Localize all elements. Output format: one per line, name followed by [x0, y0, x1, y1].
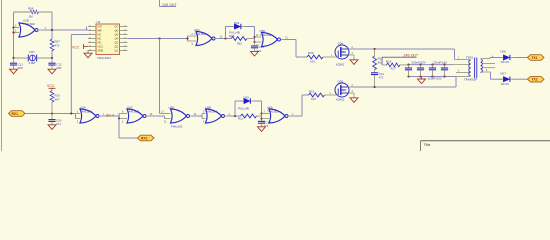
wire box2 rails	[235, 101, 262, 121]
svg-text:220uF/10V: 220uF/10V	[433, 61, 447, 65]
title block	[421, 141, 550, 151]
node junction box2 right top	[260, 112, 262, 114]
svg-text:NC: NC	[98, 33, 102, 37]
svg-text:74ALS02: 74ALS02	[206, 110, 218, 114]
capacitor C20 220uF/10V	[441, 64, 448, 78]
resistor R11 PULL4B	[238, 107, 262, 121]
capacitor C12 20P	[48, 58, 62, 70]
port RX input	[9, 111, 26, 117]
svg-text:Q3: Q3	[115, 41, 119, 45]
wire U5B out to box2	[227, 115, 241, 117]
svg-text:74ALS02: 74ALS02	[127, 110, 139, 114]
node junction snubber top	[374, 48, 376, 50]
wire long vertical branch to bottom row	[70, 35, 72, 115]
node junction box right top	[253, 36, 255, 38]
wire U3A out to U3C	[102, 115, 121, 117]
svg-text:74ALS02: 74ALS02	[171, 125, 183, 129]
wire Q04 drain rail	[351, 48, 455, 50]
svg-text:Q5: Q5	[115, 33, 119, 37]
resistor R12	[309, 90, 335, 102]
svg-text:Q1: Q1	[115, 49, 119, 53]
node junction osc input bottom	[12, 31, 14, 33]
ground for C12	[48, 69, 56, 74]
IC U4 74HC4024 body	[96, 20, 120, 60]
capacitor C10 271 input	[48, 114, 61, 127]
wire osc output to IC pin1	[42, 29, 88, 31]
wire input line	[25, 113, 76, 115]
svg-text:74HC4024: 74HC4024	[97, 56, 111, 60]
svg-text:20P: 20P	[18, 66, 23, 70]
wire Q output to top chain	[128, 38, 188, 40]
node junction osc output	[51, 29, 53, 31]
transistor Q05 mosfet	[330, 79, 355, 101]
svg-text:Title: Title	[424, 143, 431, 147]
node junction osc bottom left	[12, 57, 14, 59]
wire U3C out to U3D	[149, 116, 165, 119]
svg-text:ICP: ICP	[98, 25, 103, 29]
wire U5A out to gate resistor R12	[291, 95, 309, 116]
svg-text:VCC: VCC	[72, 45, 80, 49]
port TX1	[528, 55, 545, 61]
capacitor C11 20P	[10, 58, 23, 70]
wire U5C out to box	[218, 38, 231, 40]
op-amp U5B nor gate	[202, 106, 231, 124]
svg-text:VR-60: VR-60	[501, 82, 510, 86]
crystal CRY1 4.0M	[28, 50, 36, 65]
svg-text:R12: R12	[309, 90, 315, 94]
transformer TR01 TRANS3P	[453, 56, 496, 82]
diode D07 VR-60	[499, 72, 514, 86]
svg-text:220uF/10V: 220uF/10V	[412, 61, 426, 65]
svg-text:4K7: 4K7	[55, 97, 61, 101]
op-amp U5C nor gate	[188, 28, 223, 46]
wire jog pin1 to pin2	[86, 27, 88, 31]
svg-text:R11: R11	[238, 117, 243, 121]
svg-text:R08: R08	[229, 34, 235, 38]
svg-text:Q4: Q4	[115, 37, 119, 41]
ground for C15	[258, 127, 266, 132]
resistor R09	[307, 51, 335, 63]
wire osc bottom rail	[14, 57, 53, 59]
node junction U5C input	[186, 37, 188, 39]
svg-text:Q7: Q7	[115, 25, 119, 29]
ground for U4	[84, 51, 92, 58]
capacitor C18 220uF/10V	[417, 64, 424, 78]
svg-text:R09: R09	[308, 51, 314, 55]
power VCC for R10	[47, 84, 56, 89]
port RX2	[138, 135, 155, 141]
svg-text:D05: D05	[244, 95, 250, 99]
node junction pullup	[51, 112, 53, 114]
svg-text:VCC: VCC	[47, 84, 55, 88]
op-amp U5A nor gate	[262, 106, 295, 124]
sheet border	[1, 0, 3, 151]
ground for cap bank	[418, 77, 426, 84]
wire U3D out to U5B	[192, 115, 202, 117]
svg-text:74ALS02: 74ALS02	[267, 110, 279, 114]
node junction osc bottom right	[51, 57, 53, 59]
capacitor C17 220uF/10V	[405, 64, 412, 78]
node junction box left	[224, 37, 226, 39]
wire secondary top to D06	[490, 58, 502, 59]
node junction osc input top	[12, 26, 14, 28]
resistor R16	[382, 60, 409, 71]
svg-text:24S OUT: 24S OUT	[162, 3, 177, 7]
svg-text:TX2: TX2	[532, 78, 538, 82]
wire drain rail to transformer pin	[454, 49, 456, 60]
net label 24S OUT stub wire	[382, 57, 417, 65]
wire osc loop left vertical	[13, 12, 15, 58]
svg-text:U4: U4	[97, 20, 101, 24]
svg-text:74ALS02: 74ALS02	[260, 33, 272, 37]
capacitor C13 271	[251, 42, 264, 53]
wire pin2 row to branch corner	[71, 34, 88, 36]
wire D07 to port TX2	[514, 78, 528, 80]
op-amp U3C nor gate	[119, 106, 153, 124]
svg-text:NC: NC	[98, 37, 102, 41]
wire osc loop top rail	[14, 11, 53, 13]
svg-text:Q05: Q05	[338, 79, 344, 83]
svg-text:D07: D07	[501, 72, 507, 76]
svg-text:220uF/10V: 220uF/10V	[428, 76, 442, 80]
node junction snubber bottom	[374, 86, 376, 88]
node junction box2 right bottom	[260, 117, 262, 119]
capacitor C15 271	[258, 120, 271, 128]
svg-text:472: 472	[55, 44, 60, 48]
svg-text:K2962: K2962	[336, 98, 345, 102]
transistor Q04 mosfet	[331, 41, 354, 66]
svg-text:100: 100	[311, 97, 316, 101]
op-amp U3A nor gate	[76, 106, 106, 124]
svg-text:20P: 20P	[56, 66, 61, 70]
op-amp U5D nor gate	[255, 29, 289, 47]
resistor R08 PULL4B	[228, 31, 255, 46]
node junction U3C input branch	[118, 117, 120, 119]
wire branch to RX2 port	[119, 119, 138, 139]
capacitor C19 220uF/10V	[429, 64, 436, 78]
node junction box2 left	[234, 115, 236, 117]
wire secondary bottom to D07	[491, 72, 503, 79]
ground for C11	[10, 69, 18, 74]
svg-text:Q2: Q2	[115, 45, 119, 49]
diode D06 VR-60	[499, 50, 514, 65]
wire osc loop right vertical	[51, 12, 53, 58]
wire D06 to port TX1	[514, 57, 528, 59]
svg-text:271: 271	[56, 122, 61, 126]
svg-text:74ALS02: 74ALS02	[194, 32, 206, 36]
resistor R13 snubber	[373, 49, 384, 70]
op-amp U2B nor gate oscillator	[14, 19, 47, 37]
node junction branch from top	[70, 112, 72, 114]
wire cap bank top rail	[409, 64, 453, 66]
resistor R07 472 series	[50, 39, 60, 51]
svg-text:MR: MR	[98, 29, 102, 33]
svg-text:NC: NC	[98, 41, 102, 45]
svg-text:1M: 1M	[29, 14, 34, 18]
svg-text:RX1: RX1	[12, 112, 19, 116]
node junction top chain branch	[158, 37, 160, 39]
ground for C10	[48, 125, 56, 130]
svg-text:562: 562	[237, 42, 242, 46]
svg-text:74ALS02: 74ALS02	[80, 110, 92, 114]
svg-text:VR-60: VR-60	[501, 60, 510, 64]
svg-text:R16: R16	[386, 60, 392, 64]
svg-text:Q04: Q04	[338, 41, 344, 45]
capacitor C14 snubber	[371, 69, 384, 87]
net label 24S OUT top left	[160, 0, 178, 7]
diode D04	[230, 21, 245, 29]
svg-text:Q6: Q6	[115, 29, 119, 33]
svg-text:74ALS02: 74ALS02	[23, 22, 35, 26]
op-amp U3D nor gate	[160, 106, 197, 129]
svg-text:GND: GND	[98, 49, 104, 53]
svg-text:U3D: U3D	[169, 106, 175, 110]
node junction box right bottom	[253, 41, 255, 43]
IC U4 left pins	[88, 25, 96, 50]
power VCC for U4	[72, 44, 88, 49]
wire Q05 drain rail	[351, 77, 457, 88]
wire vertical branch to U3D pin12	[159, 39, 161, 114]
svg-text:CRY: CRY	[29, 50, 35, 54]
diode D05	[240, 95, 255, 103]
wire box top rails	[226, 27, 255, 44]
ground for Q05 source	[350, 97, 358, 102]
port TX2	[528, 76, 545, 82]
svg-text:SD-4: SD-4	[106, 113, 114, 117]
ground for Q04 source	[350, 59, 358, 64]
svg-text:D06: D06	[501, 50, 507, 54]
resistor R06 1M feedback	[28, 7, 38, 19]
wire cap bank bottom rail	[409, 76, 457, 78]
svg-text:TR01: TR01	[466, 56, 473, 60]
resistor R10 4K7 pullup	[50, 89, 60, 114]
svg-text:TX1: TX1	[532, 56, 538, 60]
IC U4 right pins	[120, 25, 128, 50]
wire U5D out to gate resistor	[284, 40, 308, 58]
svg-text:D04: D04	[234, 21, 240, 25]
svg-text:VCC: VCC	[98, 45, 104, 49]
svg-text:4.0M: 4.0M	[29, 61, 36, 65]
svg-text:R06: R06	[28, 7, 34, 11]
svg-text:PULL4B: PULL4B	[238, 107, 249, 111]
svg-text:TRANS3P: TRANS3P	[464, 77, 477, 81]
svg-text:472: 472	[379, 76, 384, 80]
svg-text:RX2: RX2	[141, 137, 148, 141]
ground for C13	[251, 51, 259, 56]
svg-text:100: 100	[310, 60, 315, 64]
svg-text:4C7: 4C7	[391, 67, 397, 71]
svg-text:K2962: K2962	[336, 63, 345, 67]
